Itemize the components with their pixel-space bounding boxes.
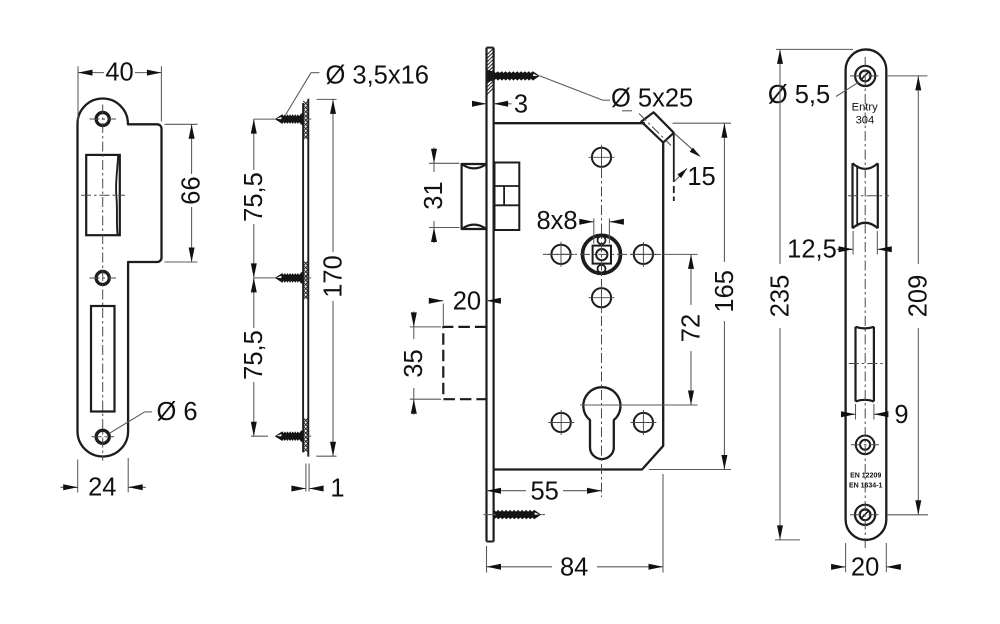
svg-text:235: 235 — [766, 275, 794, 318]
svg-text:9: 9 — [894, 401, 908, 429]
svg-text:20: 20 — [851, 554, 879, 582]
svg-text:209: 209 — [905, 275, 933, 318]
svg-text:Entry: Entry — [852, 102, 879, 114]
svg-text:40: 40 — [105, 59, 133, 87]
svg-text:Ø 3,5x16: Ø 3,5x16 — [326, 62, 429, 90]
svg-text:EN 12209: EN 12209 — [850, 473, 881, 480]
svg-text:3: 3 — [514, 91, 528, 119]
svg-text:Ø 5x25: Ø 5x25 — [611, 85, 693, 113]
svg-text:Ø 6: Ø 6 — [156, 398, 197, 426]
svg-text:165: 165 — [711, 270, 739, 313]
svg-text:66: 66 — [178, 176, 206, 204]
svg-text:20: 20 — [453, 288, 481, 316]
svg-text:15: 15 — [687, 163, 715, 191]
svg-text:170: 170 — [319, 255, 347, 298]
svg-text:84: 84 — [560, 554, 588, 582]
svg-text:55: 55 — [531, 478, 559, 506]
svg-text:72: 72 — [677, 314, 705, 342]
svg-text:1: 1 — [330, 475, 344, 503]
svg-text:31: 31 — [420, 181, 448, 209]
svg-text:35: 35 — [400, 349, 428, 377]
svg-text:75,5: 75,5 — [240, 330, 268, 380]
svg-text:8x8: 8x8 — [536, 207, 577, 235]
svg-text:12,5: 12,5 — [787, 235, 837, 263]
svg-text:EN 1634-1: EN 1634-1 — [849, 483, 883, 490]
svg-text:304: 304 — [856, 115, 875, 127]
svg-text:24: 24 — [88, 474, 116, 502]
svg-text:Ø 5,5: Ø 5,5 — [768, 81, 830, 109]
svg-text:75,5: 75,5 — [240, 172, 268, 222]
